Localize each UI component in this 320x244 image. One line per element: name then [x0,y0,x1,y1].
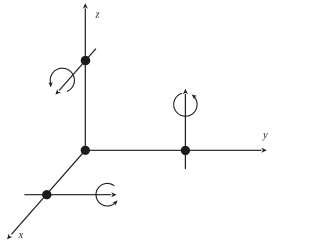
svg-text:z: z [95,10,100,21]
wire x-axis line [11,150,85,234]
wire vertical rotation axis through y joint [184,94,186,169]
node rotation arc arrowhead (vertical axis) [192,94,197,99]
node joint ball on y-axis [181,146,190,155]
wire diagonal rotation axis through z joint [59,49,96,91]
wire rotation arc around diagonal axis [50,68,74,91]
node z-axis arrowhead [83,3,88,8]
svg-text:x: x [17,230,23,241]
wire z-axis line [84,9,86,151]
wire horizontal rotation axis through x joint [24,194,111,196]
node rotation arc arrowhead (diagonal axis) [48,82,52,87]
wire rotation arc around horizontal axis [96,183,116,206]
node horizontal axis arrowhead [111,192,116,197]
node joint ball on z-axis [81,56,91,66]
svg-text:y: y [262,130,268,141]
node rotation arc arrowhead (horizontal axis) [112,200,117,205]
node x-axis arrowhead [7,234,12,240]
node origin joint ball [81,146,90,155]
node vertical axis arrowhead [183,89,188,94]
node joint ball on x-axis [42,190,51,199]
wire rotation arc around vertical axis [174,93,197,116]
wire y-axis line [85,149,261,151]
node diagonal axis arrowhead [55,89,60,95]
node y-axis arrowhead [261,148,266,153]
